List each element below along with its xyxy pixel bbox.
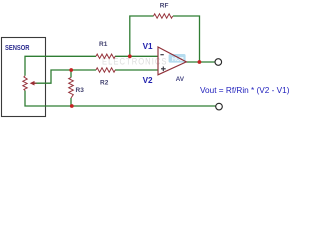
wire R1 right to op-amp inverting input bbox=[115, 55, 158, 57]
svg-text:SENSOR: SENSOR bbox=[5, 43, 30, 52]
resistor R2 bbox=[96, 68, 115, 72]
svg-text:R2: R2 bbox=[100, 79, 109, 86]
wire op-amp output to terminal bbox=[186, 61, 215, 63]
resistor RF bbox=[154, 14, 173, 18]
wire R3 top stub bbox=[70, 70, 72, 78]
resistor R3 bbox=[69, 78, 74, 99]
terminal Vout bbox=[215, 59, 222, 66]
op-amp minus sign bbox=[160, 54, 163, 56]
sensor box bbox=[2, 38, 46, 117]
wiper arrow bbox=[30, 81, 35, 86]
svg-text:RF: RF bbox=[160, 2, 169, 9]
wire wiper shaft and riser to R2 line bbox=[34, 70, 96, 83]
svg-text:V2: V2 bbox=[143, 76, 153, 85]
wire R3 bottom stub bbox=[70, 98, 72, 106]
wire pot top to R1 line bbox=[25, 56, 96, 76]
op-amp U1 bbox=[158, 47, 186, 75]
wire RF right to output node bbox=[173, 16, 200, 62]
watermark HUB box bbox=[169, 54, 186, 63]
terminal ground bbox=[216, 103, 223, 110]
node output junction bbox=[198, 60, 202, 64]
wire R2 right to op-amp non-inverting input bbox=[115, 69, 158, 71]
svg-text:R3: R3 bbox=[76, 87, 85, 94]
potentiometer element in sensor bbox=[23, 76, 27, 91]
wire pot bottom to ground rail bbox=[25, 91, 216, 107]
wire feedback loop RF bbox=[130, 16, 154, 56]
node R3 bottom junction bbox=[70, 104, 74, 108]
svg-text:R1: R1 bbox=[99, 41, 108, 48]
node feedback junction bbox=[128, 54, 132, 58]
op-amp plus sign bbox=[161, 68, 166, 70]
svg-text:Vout = Rf/Rin * (V2 - V1): Vout = Rf/Rin * (V2 - V1) bbox=[200, 85, 290, 95]
node R3 top junction bbox=[69, 68, 73, 72]
svg-text:V1: V1 bbox=[143, 42, 153, 51]
svg-text:AV: AV bbox=[176, 76, 185, 83]
resistor R1 bbox=[96, 54, 115, 58]
